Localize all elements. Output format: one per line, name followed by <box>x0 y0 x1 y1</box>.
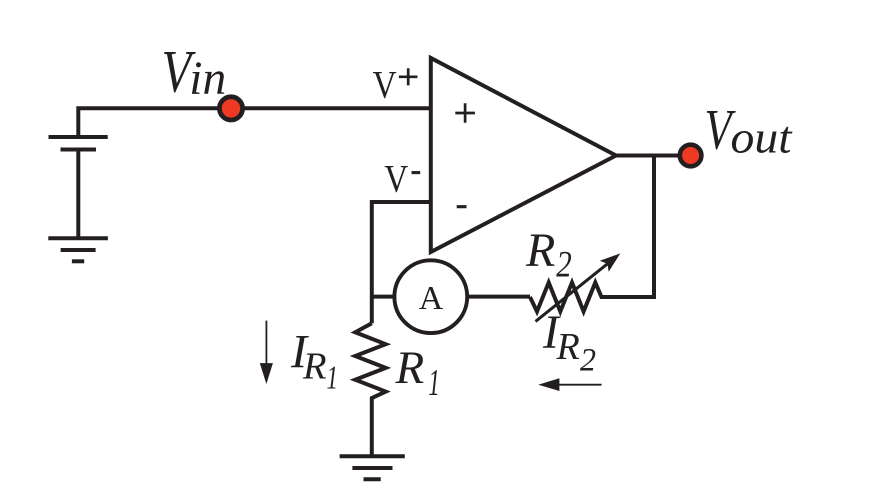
svg-text:1: 1 <box>327 360 339 397</box>
svg-text:R: R <box>302 346 327 388</box>
svg-text:R: R <box>395 342 425 394</box>
svg-text:V: V <box>384 157 408 200</box>
svg-text:A: A <box>419 280 444 317</box>
svg-text:in: in <box>189 53 226 105</box>
svg-text:R: R <box>525 224 555 277</box>
svg-text:1: 1 <box>428 362 440 404</box>
svg-text:2: 2 <box>580 343 596 379</box>
svg-text:R: R <box>556 326 580 368</box>
svg-text:out: out <box>731 112 793 163</box>
svg-text:2: 2 <box>556 245 572 286</box>
svg-text:V: V <box>373 64 397 107</box>
